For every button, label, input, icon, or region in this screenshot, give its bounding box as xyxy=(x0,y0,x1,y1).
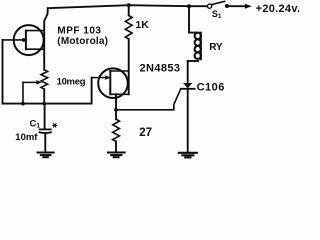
wire Q2 bottom lead xyxy=(115,94,117,110)
transistor Q1 channel box top xyxy=(26,30,44,32)
wire FET drain from rail corner xyxy=(44,8,48,70)
wire relay bottom lead xyxy=(188,60,198,62)
transistor Q1 gate bar xyxy=(25,31,27,50)
resistor R2 1K xyxy=(128,5,130,15)
node dot rail/relay xyxy=(187,4,191,8)
svg-text:10meg: 10meg xyxy=(57,77,86,88)
svg-text:C1: C1 xyxy=(30,119,41,130)
wire 10meg bottom xyxy=(43,89,45,103)
polarity mark xyxy=(53,124,57,127)
capacitor C1 bottom lead xyxy=(44,133,46,152)
svg-text:RY: RY xyxy=(209,42,223,53)
node dot wiper/rail xyxy=(21,102,25,106)
wire 1K to collector xyxy=(128,39,130,94)
svg-text:1K: 1K xyxy=(135,19,149,31)
svg-text:27: 27 xyxy=(139,127,152,139)
wiper arrow of R1 xyxy=(23,81,37,83)
wire to supply arrow xyxy=(227,5,245,7)
ground under 27 xyxy=(108,153,125,158)
wire SCR anode xyxy=(187,61,189,83)
wire wiper down xyxy=(22,82,24,103)
transistor Q1 MPF 103 circle xyxy=(14,25,44,55)
node dot pot/rail xyxy=(42,102,46,106)
transistor Q2 2N4853 circle xyxy=(98,68,128,98)
relay RY core bar xyxy=(200,33,202,59)
transistor Q1 channel box bottom xyxy=(26,48,44,50)
wire bottom rail xyxy=(3,78,92,104)
wire relay top lead xyxy=(189,6,198,32)
ground under C1 xyxy=(38,153,54,158)
svg-text:10mf: 10mf xyxy=(15,132,38,143)
node dot junction xyxy=(114,108,118,112)
wire gate of SCR xyxy=(116,89,181,110)
wire emitter lead with arrow xyxy=(92,77,105,79)
switch S1 blade xyxy=(212,1,224,4)
relay RY coil xyxy=(195,33,201,59)
SCR C106 cathode bar xyxy=(181,88,195,90)
wire left vertical from gate to bottom rail xyxy=(2,40,4,104)
resistor R3 27 xyxy=(115,110,117,119)
transistor Q2 box bottom xyxy=(110,93,128,95)
wire SCR cathode to ground xyxy=(187,89,189,153)
capacitor C1 top plate xyxy=(40,128,51,130)
transistor Q2 base bar xyxy=(109,71,111,94)
switch S1 left contact xyxy=(208,4,212,8)
svg-text:S1: S1 xyxy=(212,9,222,20)
svg-text:+20.24v.: +20.24v. xyxy=(256,3,300,15)
capacitor C1 bottom plate xyxy=(40,131,51,134)
svg-text:C106: C106 xyxy=(197,82,225,94)
capacitor C1 top lead xyxy=(44,104,46,129)
svg-text:MPF 103: MPF 103 xyxy=(57,25,101,36)
svg-text:2N4853: 2N4853 xyxy=(140,63,181,75)
svg-text:(Motorola): (Motorola) xyxy=(57,36,108,47)
wire gate lead xyxy=(3,39,26,41)
node dot rail/1K xyxy=(127,3,131,7)
node gate dot xyxy=(22,38,26,42)
SCR C106 triangle xyxy=(183,83,192,88)
wire top rail xyxy=(48,5,208,8)
arrow head supply xyxy=(245,4,252,9)
resistor R1 10meg zigzag xyxy=(41,70,48,89)
ground under SCR xyxy=(179,153,197,158)
transistor Q2 box top xyxy=(110,70,128,72)
switch S1 right contact xyxy=(225,4,229,8)
